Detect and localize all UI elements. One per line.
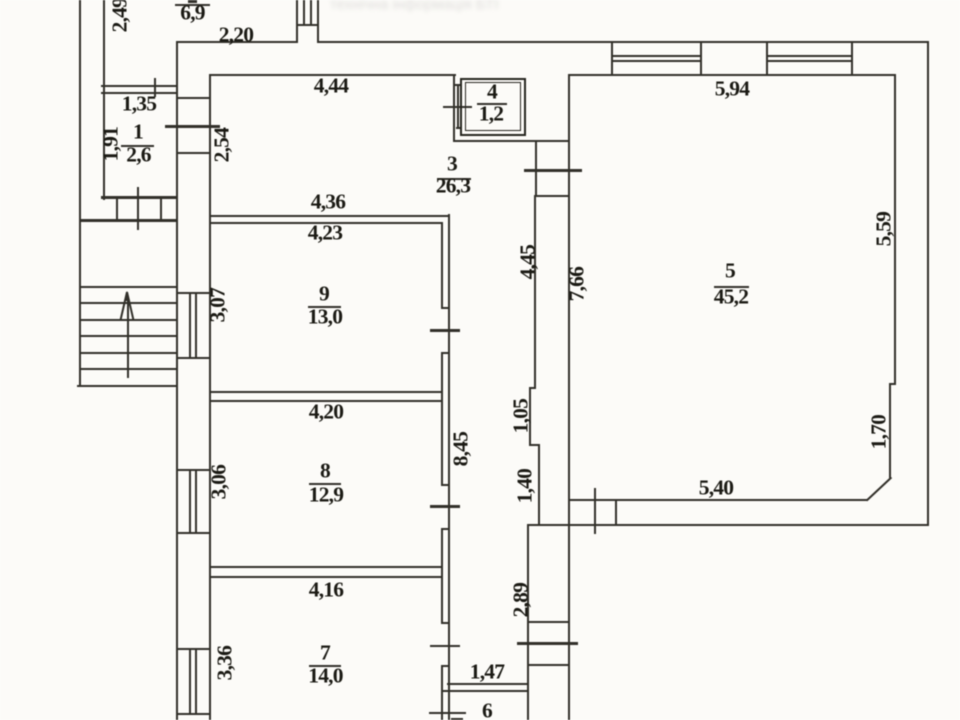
room8 top wall (4,20) [209, 400, 443, 402]
stair step 1 [80, 286, 176, 288]
room8 bottom wall [209, 566, 443, 568]
stair arrow head right leg [126, 292, 134, 320]
dim 1,70 [868, 415, 890, 449]
room4 pocket west line [453, 74, 455, 141]
door room9 tick [430, 329, 461, 332]
dim 1,40 [514, 469, 536, 503]
label room5 number [725, 260, 735, 282]
label room8 fraction bar [309, 483, 341, 485]
dim 5,40 [699, 477, 733, 499]
window room7 bottom cap [176, 713, 210, 715]
stair step 2 [80, 302, 176, 304]
room5 east wall lower (1,70) [889, 383, 891, 478]
corridor west wall [448, 214, 450, 720]
window room8 top cap [176, 469, 210, 471]
door room7 jamb top [441, 622, 450, 624]
room3 top wall (4,44) [209, 74, 456, 76]
dim 4,36 [311, 191, 345, 213]
room5 top wall (5,94) [570, 74, 896, 76]
dim 5,94 [715, 78, 749, 100]
vestibule door jamb right [160, 198, 162, 221]
door room9 jamb top [441, 307, 450, 309]
corridor east wall seg4 (1,40) [538, 444, 540, 525]
room5 west wall (7,66) [568, 74, 570, 720]
label room7 number [320, 642, 330, 664]
door room7 tick [430, 645, 461, 648]
window north-1 sill 2 [611, 60, 700, 62]
dim 4,44 [314, 75, 348, 97]
wall outer-left [79, 0, 81, 385]
dim 2,54 [211, 128, 233, 162]
dim 1,47 [470, 661, 504, 683]
shaft cap [296, 24, 319, 26]
door room8 tick [430, 505, 461, 508]
label room9 fraction bar [308, 306, 341, 308]
dim 4,45 [517, 245, 539, 279]
window room8 pane line 1 [189, 469, 191, 533]
faint scan watermark [330, 0, 560, 13]
window room7 pane line 2 [195, 648, 197, 714]
window north-2 right [851, 42, 853, 75]
dim 8,45 [450, 432, 472, 466]
window room9 top cap [176, 292, 210, 294]
label room8 area [309, 484, 343, 506]
door r1-r3 tick [165, 125, 220, 128]
shaft inner line 1 [303, 0, 305, 25]
dim 3,36 [214, 646, 236, 680]
dim 7,66 [566, 267, 588, 301]
dim 2,89 [510, 583, 532, 617]
room1/6,9 door tick [154, 78, 156, 97]
label room1 fraction bar [121, 145, 154, 147]
corridor jog stub 2 [529, 444, 540, 446]
label room5 fraction bar [714, 286, 750, 288]
label room3 number [447, 153, 457, 175]
rooms east wall seg3 [441, 528, 443, 622]
door room6 edge mark [451, 718, 463, 720]
wall outer-bottom of room5 band [527, 524, 928, 526]
label 6,9 [180, 2, 204, 24]
room5 bottom wall (5,40) [568, 499, 867, 501]
window north-1 right [700, 42, 702, 75]
door room4 tick [443, 106, 472, 109]
corridor jog stub 1 [529, 387, 536, 389]
window room8 pane line 2 [195, 469, 197, 533]
stair bottom edge [77, 385, 177, 388]
stair step 5 [80, 352, 176, 354]
room4 pocket stub bottom [456, 127, 462, 129]
dim 4,23 [308, 222, 342, 244]
dim 4,20 [309, 401, 343, 423]
label room3 area [436, 175, 470, 197]
rooms east wall seg2 [441, 352, 443, 484]
label room7 fraction bar [309, 665, 341, 667]
wall outer-right (5,59 side) [927, 41, 929, 526]
corridor east wall seg1 [535, 140, 537, 197]
room5 chamfer corner wall [865, 476, 891, 501]
door room5-south tick [594, 488, 597, 534]
stair arrow head left leg [120, 292, 128, 320]
label room7 area [308, 665, 342, 687]
corridor east wall seg2 (4,45) [534, 195, 536, 388]
room1 top wall line b [101, 92, 177, 94]
window room9 pane line 2 [195, 292, 197, 358]
door r3-r5 bottom jamb [535, 195, 570, 197]
label room5 area [714, 286, 748, 308]
window room8 bottom cap [176, 532, 210, 534]
door room7 jamb bottom [441, 665, 450, 667]
label room4 area [479, 103, 503, 125]
vestibule door jamb left [116, 198, 118, 221]
corridor bottom wall inner (1,47) [447, 683, 529, 685]
door r3-r5 tick [524, 169, 582, 172]
dim 2,49 [109, 0, 131, 32]
wall west strip (r1 right) [176, 41, 178, 720]
room4 box outer border [460, 78, 526, 136]
vestibule door tick [137, 187, 140, 230]
dim 1,91 [100, 126, 122, 160]
entrance door bottom jamb [529, 664, 570, 666]
label room6 number [482, 700, 492, 720]
stair step 3 [80, 319, 176, 321]
dim 2,20 [219, 24, 253, 46]
door room8 jamb bottom [441, 528, 450, 530]
wall upper-left inner [103, 0, 105, 200]
window north-1 left [611, 42, 613, 75]
door r1-r3 top jamb [176, 97, 210, 99]
label 6,9 fraction bar [175, 4, 210, 6]
door room6 tick [429, 712, 466, 715]
room9 bottom wall [209, 391, 443, 393]
room4 pocket stub top [453, 84, 462, 86]
entrance door tick [517, 642, 579, 645]
rooms east wall seg1 [441, 222, 443, 307]
dim 5,59 [873, 212, 895, 246]
stair step 4 [80, 335, 176, 337]
stair arrow tip [124, 291, 130, 301]
label room9 number [319, 283, 329, 305]
room3 bottom wall (4,36) [209, 215, 450, 217]
window room9 bottom cap [176, 357, 210, 359]
window north-1 sill 1 [611, 55, 700, 57]
shaft left [296, 0, 298, 43]
room5 east wall upper [894, 74, 896, 384]
stair step 6 [80, 368, 176, 370]
window room7 pane line 1 [189, 648, 191, 714]
room1 top wall line a [101, 85, 177, 87]
rooms west wall [209, 74, 211, 720]
wall top-west (2,20) [176, 41, 297, 43]
label room9 area [308, 306, 342, 328]
shaft right [317, 0, 319, 41]
dim 1,05 [510, 399, 532, 433]
label room3 fraction bar [437, 178, 471, 180]
label room8 number [320, 460, 330, 482]
room7 top wall (4,16) [209, 576, 443, 578]
label room1 area [126, 144, 150, 166]
room9 top wall (4,23) [209, 222, 443, 224]
window room9 pane line 1 [189, 292, 191, 358]
stair arrow stem [127, 298, 129, 378]
label 6,9 numerator remnant [188, 0, 197, 3]
rooms east wall seg4 [441, 665, 443, 720]
door room5-south jamb [615, 499, 617, 526]
door r1-r3 bottom jamb [176, 152, 210, 154]
label room4 number [487, 81, 497, 103]
window north-2 left [766, 42, 768, 75]
door room8 jamb top [441, 484, 450, 486]
room5 east wall jog stub [889, 383, 896, 385]
dim 4,16 [309, 579, 343, 601]
dim 1,35 [122, 93, 156, 115]
entrance door top jamb [529, 621, 570, 623]
shaft inner line 2 [310, 0, 312, 25]
corridor east wall seg5 (2,89) [527, 524, 529, 720]
corridor east wall seg3 (1,05) [529, 387, 531, 445]
window north-2 sill 1 [766, 55, 852, 57]
corridor bottom wall outer / room6 top [441, 690, 530, 692]
stair landing top wall [79, 219, 177, 222]
room1 bottom wall [101, 196, 177, 199]
dim 3,06 [208, 465, 230, 499]
wall top-east [317, 41, 929, 43]
label room4 fraction bar [477, 103, 507, 105]
dim 3,07 [207, 288, 229, 322]
door room9 jamb bottom [441, 352, 450, 354]
room4 box inner border [465, 82, 522, 131]
label room1 number [133, 121, 143, 143]
wall under room4 [453, 140, 569, 142]
window room7 top cap [176, 648, 210, 650]
window north-2 sill 2 [766, 60, 852, 62]
room4 pocket jamb [457, 84, 459, 129]
